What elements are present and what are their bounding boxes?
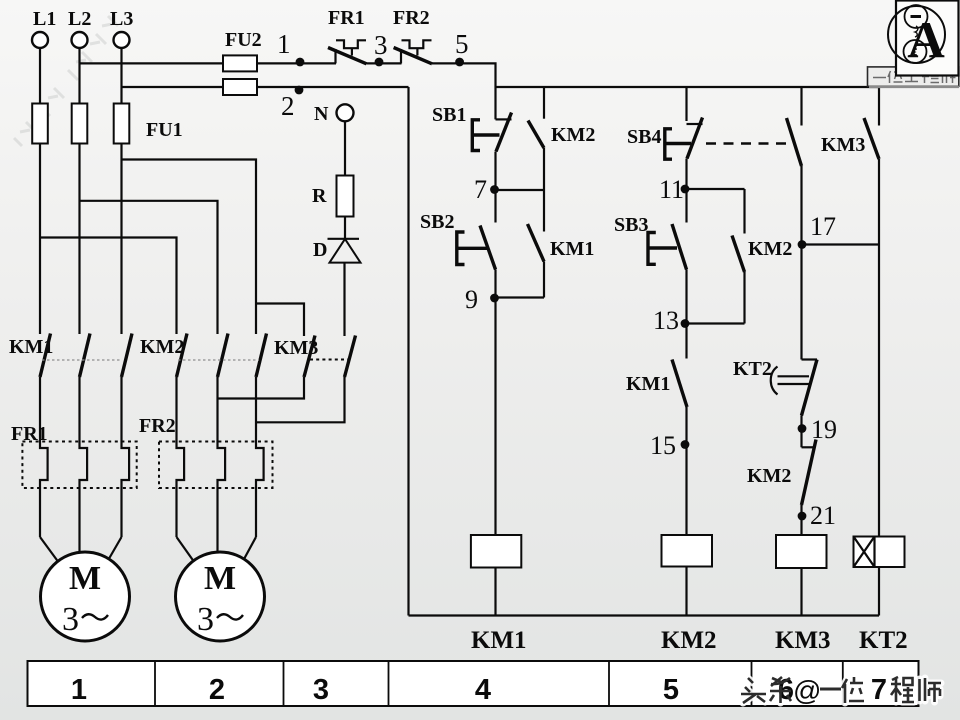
- contact KM2 aux2 NO blade: [732, 236, 745, 273]
- contactor KM1 main contact A blade: [40, 334, 51, 378]
- wire tap to KM3 left pole: [256, 304, 304, 337]
- button SB2 bracket: [457, 232, 465, 265]
- logo banner box: [868, 67, 959, 86]
- wire KT2 coil to bottom rail: [878, 567, 880, 616]
- fuse FU1 phase C: [114, 104, 130, 144]
- contact KM3 hold NO blade: [864, 118, 879, 159]
- svg-text:1: 1: [277, 29, 291, 59]
- svg-text:KM2: KM2: [747, 465, 791, 487]
- svg-text:KM3: KM3: [775, 627, 831, 654]
- wire KM2 pole A to heater FR2a: [177, 377, 185, 537]
- svg-text:13: 13: [653, 306, 679, 335]
- node 9 dot: [490, 294, 499, 303]
- svg-text:17: 17: [810, 212, 836, 241]
- wire SB4 pole2 to node 17: [800, 166, 802, 245]
- button SB1 seat: [496, 118, 512, 120]
- wire KM1 aux to node 9: [543, 262, 545, 298]
- wire line1 L2 to FU2: [80, 62, 224, 64]
- wire diode to KM3 right pole: [343, 263, 345, 336]
- logo dash in top circle: [911, 15, 922, 18]
- svg-text:7: 7: [871, 674, 887, 706]
- contactor KM3 mechanical link (dotted): [310, 359, 348, 361]
- wire rail to KM3 hold contact: [878, 87, 880, 126]
- svg-text:KM2: KM2: [748, 238, 792, 260]
- svg-text:5: 5: [455, 29, 469, 59]
- contactor KM2 main contact C blade: [256, 334, 267, 378]
- wire L1 fuse to KM1 contact: [39, 144, 41, 335]
- svg-text:SB2: SB2: [420, 211, 454, 233]
- logo frame rectangle: [896, 1, 959, 76]
- watermark 头条@一位工程师 strokes: [741, 677, 941, 703]
- svg-text:M: M: [204, 560, 236, 597]
- svg-text:15: 15: [650, 431, 676, 460]
- wire node 11 crossover: [687, 188, 745, 190]
- terminal N circle: [337, 104, 354, 121]
- svg-text:2: 2: [209, 674, 225, 706]
- diode D triangle: [330, 239, 361, 263]
- svg-text:5: 5: [663, 674, 679, 706]
- button SB4 plunger: [665, 142, 691, 145]
- contact KM1 interlock blade: [672, 360, 687, 408]
- svg-text:KM1: KM1: [626, 373, 670, 395]
- wire L1 drop to fuse: [39, 48, 41, 104]
- svg-text:FR2: FR2: [393, 7, 430, 29]
- terminal L1 circle: [32, 32, 48, 48]
- contact KM1 aux NO blade: [528, 224, 545, 262]
- wire rail to SB4: [685, 87, 687, 121]
- contactor KM1 main contact C blade: [122, 334, 133, 378]
- node 2 dot: [295, 86, 304, 95]
- thermal contact FR2: actuator: [402, 40, 432, 55]
- button SB3 bracket: [648, 233, 656, 265]
- node 5 dot: [455, 58, 464, 67]
- wire node 7 crossover: [496, 189, 545, 191]
- wire KM2 aux to KM1 aux: [543, 148, 545, 232]
- thermal overload FR2 dotted box: [159, 442, 273, 489]
- thermal contact FR2: terminal tick: [400, 49, 402, 63]
- wire KM1 interlock to KM2 coil: [685, 407, 687, 535]
- wire left control rail (down): [407, 87, 409, 616]
- wire L3 drop to fuse: [120, 48, 122, 104]
- button SB2 blade (NO): [480, 226, 496, 270]
- svg-text:FU2: FU2: [225, 29, 262, 51]
- svg-text:21: 21: [810, 501, 836, 530]
- contactor KM3 braking contact right blade: [345, 336, 356, 378]
- svg-text:SB1: SB1: [432, 104, 466, 126]
- contactor KM3 braking contact left blade: [304, 336, 315, 378]
- svg-text:2: 2: [281, 91, 295, 121]
- diode D cathode bar: [328, 238, 360, 240]
- coil KM2: [662, 535, 713, 567]
- wire branch L2 to KM2 phase B: [80, 201, 218, 334]
- coil KM1: [471, 535, 521, 568]
- svg-text:KM2: KM2: [551, 124, 595, 146]
- button SB2 plunger: [457, 247, 488, 250]
- svg-text:KT2: KT2: [733, 358, 772, 380]
- svg-text:@: @: [793, 675, 821, 706]
- fuse FU1 phase A: [32, 104, 48, 144]
- button SB3 plunger: [648, 246, 677, 249]
- faint diagonal watermark top-left: [14, 16, 118, 146]
- motor M1 lead C: [109, 537, 122, 560]
- wire SB2 to node 9: [494, 270, 496, 298]
- node 7 dot: [490, 185, 499, 194]
- node 15 dot: [681, 440, 690, 449]
- thermal contact FR2: blade: [394, 48, 432, 64]
- node 13 dot: [681, 319, 690, 328]
- button SB1 plunger: [472, 133, 499, 136]
- svg-text:KT2: KT2: [859, 627, 908, 654]
- wire KM1 pole C to heater FR1c: [122, 377, 130, 537]
- node 21 dot: [798, 512, 807, 521]
- control bottom rail: [409, 614, 880, 616]
- node 3 dot: [375, 58, 384, 67]
- svg-text:R: R: [312, 185, 327, 207]
- thermal contact FR1: terminal tick: [334, 49, 336, 63]
- logo big circle: [888, 6, 945, 63]
- wire SB1 to SB2 (node 7 run): [494, 152, 496, 223]
- coil KM3: [776, 535, 827, 568]
- svg-text:FR2: FR2: [139, 415, 176, 437]
- wire KM2 coil to bottom rail: [685, 567, 687, 616]
- svg-text:3: 3: [374, 30, 388, 60]
- fuse FU2 upper: [223, 55, 257, 71]
- wire KM1 coil to bottom rail: [494, 568, 496, 616]
- wire KM2 pole B to heater FR2b: [218, 377, 226, 553]
- svg-text:L1: L1: [33, 8, 56, 30]
- motor M2 tilde: [217, 614, 243, 619]
- fuse FU2 lower: [223, 79, 257, 95]
- wire L2 fuse to KM1 contact: [78, 144, 80, 335]
- svg-text:M: M: [69, 560, 101, 597]
- wire KM1 pole A to heater FR1a: [40, 377, 48, 537]
- svg-text:11: 11: [659, 175, 684, 204]
- svg-text:3: 3: [313, 674, 329, 706]
- wire node 11 to KM2 aux2: [743, 189, 745, 234]
- thermal contact FR1: blade: [328, 48, 367, 64]
- svg-text:KM1: KM1: [550, 238, 594, 260]
- node 17 dot: [798, 240, 807, 249]
- svg-text:N: N: [314, 103, 329, 125]
- wire KM3 left pole to motor2 phase B: [218, 377, 305, 399]
- svg-text:KM1: KM1: [471, 627, 527, 654]
- svg-text:A: A: [907, 13, 945, 70]
- wire L2 drop to fuse: [78, 48, 80, 104]
- button SB4 bracket: [665, 129, 672, 159]
- svg-text:KM2: KM2: [140, 336, 184, 358]
- terminal L2 circle: [72, 32, 88, 48]
- node 1 dot: [296, 58, 305, 67]
- wire line1 FU2 to FR1 contact: [257, 62, 336, 64]
- svg-text:FU1: FU1: [146, 119, 183, 141]
- button SB4 mechanical link (dashed): [706, 142, 789, 145]
- svg-text:KM3: KM3: [821, 134, 865, 156]
- svg-text:SB4: SB4: [627, 126, 661, 148]
- svg-text:4: 4: [475, 674, 491, 706]
- contact KM2 interlock seat: [802, 446, 815, 448]
- wire line2 FU2 to left control rail: [257, 86, 409, 88]
- thermal contact FR1: actuator: [336, 40, 366, 55]
- motor M2 lead C: [244, 537, 257, 560]
- svg-text:9: 9: [465, 285, 478, 314]
- motor M1 circle: [41, 552, 130, 641]
- wire KM2 interlock to KM3 coil: [800, 505, 802, 535]
- wire rail to KM2 aux: [543, 87, 545, 119]
- svg-text:FR1: FR1: [328, 7, 365, 29]
- wire node 17 crossover: [802, 243, 880, 245]
- contactor KM2 mechanical link (dashed): [178, 359, 259, 361]
- wire line1 FR2 to control rail corner: [432, 63, 496, 87]
- wire KM3 hold to KT2 coil: [878, 159, 880, 537]
- timer coil KT2 divider and X: [854, 537, 875, 568]
- wiring table dividers: [155, 661, 843, 706]
- wire node 13 crossover: [687, 322, 745, 324]
- wire rail to SB1: [494, 87, 496, 119]
- button SB3 blade (NO): [672, 224, 687, 270]
- button SB4 blade (NC): [687, 118, 703, 159]
- thermal overload FR1 dotted box: [22, 442, 136, 489]
- motor M2 lead A: [177, 537, 194, 561]
- svg-text:L3: L3: [110, 8, 133, 30]
- contactor KM2 main contact B blade: [218, 334, 229, 378]
- resistor R: [337, 176, 354, 217]
- wire node 9 to KM1 coil: [494, 298, 496, 536]
- svg-text:7: 7: [474, 175, 487, 204]
- svg-text:KM2: KM2: [661, 627, 717, 654]
- wire KM3 coil to bottom rail: [800, 568, 802, 616]
- svg-text:D: D: [313, 239, 327, 261]
- wire node 9 crossover: [496, 296, 545, 298]
- timer KT2 delay bars: [778, 376, 810, 384]
- control top rail: [496, 86, 880, 88]
- node 19 dot: [798, 424, 807, 433]
- button SB1 blade (NC): [496, 113, 512, 152]
- wire node 17 to KT2 contact: [800, 245, 802, 360]
- wire line2 L3 to FU2: [122, 86, 224, 88]
- contactor KM2 main contact A blade: [177, 334, 188, 378]
- contact KM2 interlock blade (NC): [802, 440, 817, 506]
- wire KM2 pole C to heater FR2c: [256, 377, 264, 537]
- wire rail to SB4 pole2: [800, 87, 802, 126]
- contact KM2 aux NO blade: [528, 121, 544, 149]
- wire SB3 to node 13: [685, 270, 687, 324]
- logo small circle top: [905, 5, 928, 28]
- logo banner text 一位工程师 (approx): [873, 71, 956, 84]
- logo tiny glyph in bottom circle: [914, 49, 917, 55]
- watermark 头条@一位工程师 white halo: [741, 677, 941, 703]
- wire branch L1 to KM2 phase A: [40, 238, 177, 335]
- svg-text:L2: L2: [68, 8, 91, 30]
- fuse FU1 phase B: [72, 104, 88, 144]
- wire KM2 aux2 to node 13: [743, 272, 745, 324]
- button SB1 bracket: [472, 120, 480, 151]
- wire KM3 right pole to motor2 phase C: [256, 377, 345, 422]
- wire node 13 to KM1 interlock: [685, 324, 687, 359]
- wire SB4 to node 11: [685, 159, 687, 223]
- wire branch L3 to KM2 phase C: [122, 160, 257, 335]
- wire line1 FR1 to FR2: [367, 62, 402, 64]
- motor M2 circle: [176, 552, 265, 641]
- button SB4 pole2 blade (NO): [787, 118, 802, 166]
- motor M1 tilde: [82, 614, 108, 619]
- terminal L3 circle: [114, 32, 130, 48]
- timer coil KT2 box: [854, 537, 905, 568]
- logo squiggle: [915, 26, 918, 37]
- wire KT2 contact to node 19: [800, 416, 802, 448]
- svg-text:1: 1: [71, 674, 87, 706]
- wire N to resistor: [344, 121, 346, 175]
- timer KT2 contact seat: [802, 358, 818, 360]
- logo frame backing: [896, 1, 959, 76]
- wire R to diode: [344, 217, 346, 239]
- svg-text:SB3: SB3: [614, 214, 648, 236]
- button SB4 seat: [687, 123, 703, 125]
- wire KM1 pole B to heater FR1b: [80, 377, 88, 553]
- wiring table frame: [28, 661, 919, 706]
- contactor KM1 main contact B blade: [80, 334, 91, 378]
- logo banner shadow: [869, 86, 959, 88]
- contactor KM1 mechanical link (dashed): [42, 359, 122, 361]
- timer KT2 contact blade (NC delayed): [802, 360, 818, 416]
- svg-text:3: 3: [197, 601, 214, 638]
- timer KT2 delay arc: [771, 367, 778, 395]
- wire L3 fuse to KM1 contact: [120, 144, 122, 335]
- logo small circle bottom: [904, 40, 927, 63]
- svg-text:3: 3: [62, 601, 79, 638]
- motor M1 lead A: [40, 537, 58, 562]
- node 11 dot: [681, 185, 690, 194]
